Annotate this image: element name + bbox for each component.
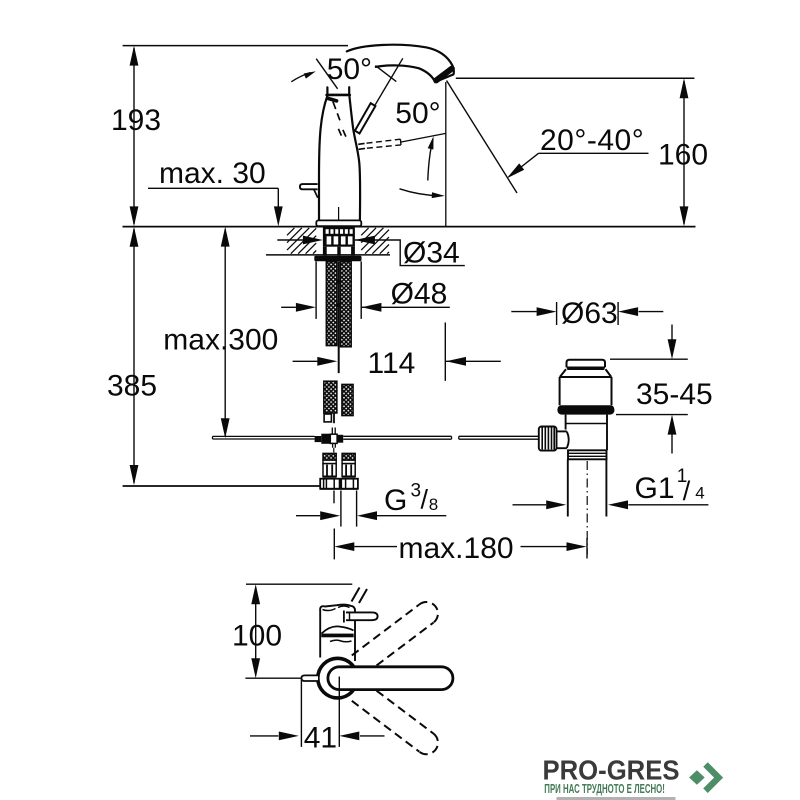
svg-text:PRO-GRES: PRO-GRES bbox=[543, 754, 680, 785]
svg-text:max. 30: max. 30 bbox=[159, 157, 266, 190]
svg-text:4: 4 bbox=[695, 484, 704, 503]
svg-text:G: G bbox=[384, 484, 407, 517]
svg-text:G1: G1 bbox=[635, 472, 675, 505]
svg-text:Ø63: Ø63 bbox=[561, 297, 618, 330]
svg-text:/: / bbox=[683, 476, 691, 506]
svg-text:41: 41 bbox=[304, 721, 337, 754]
svg-text:114: 114 bbox=[368, 347, 416, 380]
svg-text:3: 3 bbox=[411, 481, 422, 502]
svg-text:max.300: max.300 bbox=[163, 323, 278, 356]
svg-text:50°: 50° bbox=[395, 97, 440, 130]
svg-text:20°-40°: 20°-40° bbox=[540, 124, 644, 157]
svg-text:max.180: max.180 bbox=[399, 532, 514, 565]
svg-text:ПРИ НАС ТРУДНОТО Е ЛЕСНО!: ПРИ НАС ТРУДНОТО Е ЛЕСНО! bbox=[544, 782, 665, 796]
svg-text:Ø34: Ø34 bbox=[403, 237, 460, 270]
svg-text:385: 385 bbox=[107, 370, 157, 403]
svg-text:193: 193 bbox=[111, 104, 161, 137]
svg-text:35-45: 35-45 bbox=[636, 378, 713, 411]
svg-text:Ø48: Ø48 bbox=[391, 278, 448, 311]
svg-text:160: 160 bbox=[658, 139, 708, 172]
svg-text:8: 8 bbox=[429, 495, 438, 514]
svg-text:/: / bbox=[421, 485, 429, 515]
svg-text:100: 100 bbox=[232, 620, 282, 653]
svg-text:50°: 50° bbox=[327, 53, 372, 86]
